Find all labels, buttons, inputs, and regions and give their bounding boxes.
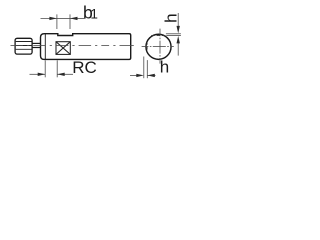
svg-text:1: 1: [90, 7, 98, 22]
svg-text:RC: RC: [72, 58, 97, 77]
svg-text:h: h: [160, 57, 169, 76]
svg-text:h: h: [161, 13, 180, 22]
